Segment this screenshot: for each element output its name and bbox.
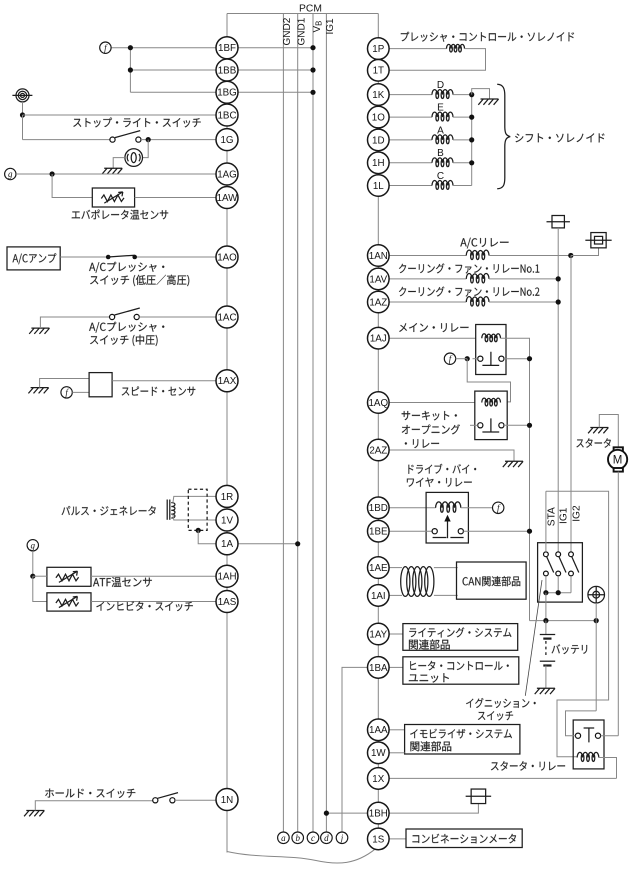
label immobilizer line2 bbox=[410, 741, 451, 751]
svg-text:IG1: IG1 bbox=[559, 507, 570, 524]
cooling fan relay no1 coil bbox=[466, 274, 489, 279]
main relay contact left bbox=[478, 356, 483, 361]
ground starter bbox=[588, 428, 608, 434]
svg-text:d: d bbox=[324, 833, 329, 843]
wire 1BB left bbox=[130, 69, 227, 71]
svg-text:1AN: 1AN bbox=[369, 251, 388, 262]
PCM pin 1AY right bbox=[368, 623, 390, 645]
label hold switch bbox=[45, 789, 135, 798]
wire 1BH right to connector bbox=[389, 804, 478, 814]
svg-text:C: C bbox=[437, 171, 444, 182]
A/C pressure switch hi-lo contact right bbox=[132, 255, 137, 260]
svg-text:1AQ: 1AQ bbox=[368, 398, 388, 409]
battery dashed bbox=[545, 641, 547, 656]
hold switch blade bbox=[158, 793, 178, 799]
wire twist to box top bbox=[434, 567, 458, 569]
wire coil to 1T loop bbox=[389, 49, 485, 71]
svg-text:GND2: GND2 bbox=[282, 17, 293, 45]
stop light switch contact right bbox=[136, 137, 141, 142]
svg-text:1AJ: 1AJ bbox=[370, 334, 387, 345]
wire g to 1AG bbox=[16, 173, 227, 175]
wire solenoid A to common bbox=[453, 139, 472, 141]
label pulse generator bbox=[62, 506, 156, 516]
ignition switch pole 3 top contact bbox=[569, 552, 574, 557]
pulse generator shield bbox=[188, 489, 207, 530]
wire DBW coil to f bbox=[461, 507, 493, 509]
wire 1AQ to COR bbox=[389, 402, 475, 404]
pulse generator core bbox=[166, 500, 168, 520]
label DBW relay line1 bbox=[408, 464, 476, 474]
wire amp to switch bbox=[60, 256, 106, 258]
battery cell 2 bbox=[540, 660, 555, 662]
PCM pin 1BH right bbox=[368, 802, 390, 824]
svg-text:1AZ: 1AZ bbox=[369, 297, 387, 308]
ignition switch pole 3 bottom contact bbox=[569, 571, 574, 576]
label heater line1 bbox=[410, 661, 509, 671]
stop lamp bulb bbox=[125, 149, 143, 167]
svg-text:1T: 1T bbox=[373, 66, 384, 77]
junction VB/1BB bbox=[310, 67, 315, 72]
svg-text:1V: 1V bbox=[221, 515, 233, 526]
wire pulse gen to 1R bbox=[173, 496, 216, 503]
wire solenoid C to common bbox=[453, 185, 472, 187]
svg-text:1BH: 1BH bbox=[369, 809, 388, 820]
node g ATF bbox=[27, 540, 38, 551]
wire 1BE to DBW switch bbox=[389, 530, 432, 532]
wire bullseye down bbox=[22, 102, 24, 115]
label cooling fan relay no1 bbox=[399, 263, 539, 273]
wire main relay contact right out bbox=[504, 358, 530, 360]
label main relay bbox=[399, 323, 468, 332]
wire mid switch to 1AC bbox=[139, 316, 227, 318]
wire 1AA to box bbox=[389, 729, 405, 731]
ignition switch pole 2 top contact bbox=[556, 552, 561, 557]
connector node b bbox=[292, 832, 304, 844]
starter relay contact right bbox=[595, 733, 600, 738]
wire 1AN to coil bbox=[389, 255, 466, 257]
wire shield to 1A bbox=[198, 530, 216, 543]
wire twist to box bottom bbox=[434, 594, 458, 596]
main relay contact right bbox=[499, 356, 504, 361]
PCM pin 2AZ right bbox=[368, 439, 390, 461]
wire starter ground bbox=[599, 415, 618, 448]
ignition switch pole 2 bottom contact bbox=[556, 571, 561, 576]
junction shield bbox=[196, 528, 201, 533]
starter motor brush bottom bbox=[614, 468, 623, 472]
svg-text:g: g bbox=[8, 169, 13, 179]
svg-text:1S: 1S bbox=[372, 834, 384, 845]
wire relay coil right to 1X bbox=[599, 758, 617, 779]
DBW relay box bbox=[426, 492, 468, 543]
svg-text:E: E bbox=[437, 103, 444, 114]
wire 1AY to box bbox=[389, 633, 403, 635]
PCM pin 1D right bbox=[368, 129, 390, 151]
label ignition switch line1 bbox=[466, 698, 536, 708]
PCM pin 1AN right bbox=[368, 245, 390, 267]
wire lamp to ground bbox=[113, 158, 125, 169]
svg-text:1A: 1A bbox=[221, 539, 233, 550]
wire 2AZ to ground bbox=[389, 450, 514, 461]
A/C mid switch blade bbox=[115, 308, 140, 315]
bus GND1 bbox=[297, 14, 299, 833]
svg-text:1D: 1D bbox=[372, 135, 385, 146]
label lighting line1 bbox=[409, 627, 511, 637]
svg-text:1AO: 1AO bbox=[217, 252, 237, 263]
ignition switch pole 1 blade bbox=[547, 557, 554, 573]
junction ign tie 2 bbox=[556, 590, 561, 595]
DBW under-bars bbox=[433, 537, 464, 539]
shift solenoid common vertical bbox=[471, 95, 473, 186]
wire DBW contact right out bbox=[463, 530, 529, 532]
A/C amp box bbox=[7, 247, 60, 270]
shift solenoid D coil bbox=[432, 90, 453, 95]
bus IG1 bbox=[325, 14, 327, 833]
wire g to ATF box bbox=[33, 575, 47, 577]
PCM pin 1R left bbox=[216, 485, 238, 507]
wire 1BG to VB bbox=[227, 91, 313, 93]
wire coil no2 to IG1 bbox=[489, 301, 558, 303]
immobilizer box bbox=[405, 725, 520, 755]
PCM pin 1BE right bbox=[368, 520, 390, 542]
svg-text:PCM: PCM bbox=[299, 4, 322, 15]
PCM pin 1AQ right bbox=[368, 392, 390, 414]
starter relay contact left bbox=[575, 733, 580, 738]
junction VB/1BF bbox=[310, 45, 315, 50]
label evaporator temp sensor bbox=[72, 210, 168, 220]
wire hold switch to 1N bbox=[175, 799, 216, 801]
PCM pin 1K right bbox=[368, 84, 390, 106]
svg-text:A: A bbox=[437, 125, 444, 136]
svg-text:1BD: 1BD bbox=[369, 503, 388, 514]
main relay plunger bbox=[482, 352, 499, 366]
label CAN parts bbox=[463, 576, 521, 586]
hold switch contact left bbox=[153, 798, 158, 803]
PCM pin 1AJ right bbox=[368, 327, 390, 349]
wire 1BA to j line bbox=[342, 667, 368, 832]
PCM pin 1N left bbox=[216, 789, 238, 811]
ground shift solenoids bbox=[478, 99, 498, 105]
svg-text:1BC: 1BC bbox=[217, 110, 236, 121]
PCM pin 1AW left bbox=[216, 187, 238, 209]
junction solenoid common O bbox=[469, 115, 474, 120]
CAN box bbox=[457, 562, 527, 599]
label starter bbox=[576, 438, 610, 448]
wire switch to 1G bbox=[141, 139, 227, 141]
DBW relay coil bbox=[436, 502, 461, 508]
ignition switch pole 1 bottom contact bbox=[544, 571, 549, 576]
ground speed sensor bbox=[28, 388, 48, 394]
lighting system box bbox=[403, 624, 518, 651]
node f speed sensor bbox=[61, 387, 72, 398]
wire switch to 1AO bbox=[137, 256, 227, 258]
wire coil no1 to IG1 bbox=[489, 278, 558, 280]
wire to stop lamp bbox=[143, 140, 149, 158]
wire 1P to coil bbox=[389, 48, 446, 50]
junction f main relay bbox=[465, 356, 470, 361]
junction battery rail right bbox=[594, 618, 599, 623]
svg-text:1K: 1K bbox=[372, 90, 384, 101]
wire f node to COR coil bbox=[467, 359, 510, 402]
pulse generator coil bbox=[171, 503, 175, 518]
wire battery positive down bbox=[595, 603, 597, 621]
wire 1A to GND1 bbox=[227, 543, 298, 545]
wire 1BF to VB bbox=[227, 47, 313, 49]
label starter relay bbox=[491, 761, 565, 771]
COR contact left stub bbox=[470, 424, 478, 426]
svg-text:GND1: GND1 bbox=[297, 17, 308, 45]
PCM pin 1T right bbox=[368, 60, 390, 82]
wire 1X bbox=[389, 777, 616, 779]
wire 1S to meter box bbox=[389, 838, 406, 840]
junction IG1/1BH bbox=[324, 811, 329, 816]
wire 1BH left to IG1 bbox=[326, 812, 367, 814]
wire battery to relay contact bbox=[566, 711, 597, 736]
connector IG1 feed bbox=[552, 216, 564, 228]
svg-text:1L: 1L bbox=[373, 181, 384, 192]
PCM pin 1AX left bbox=[216, 370, 238, 392]
svg-text:IG1: IG1 bbox=[325, 18, 336, 35]
PCM pin 1BA right bbox=[368, 657, 390, 679]
svg-text:1R: 1R bbox=[221, 492, 234, 503]
label A/C relay bbox=[460, 238, 508, 249]
wire 1K to solenoid D bbox=[389, 94, 432, 96]
PCM pin 1G left bbox=[216, 129, 238, 151]
wire ign common down bbox=[545, 593, 547, 621]
wire battery to ground bbox=[545, 666, 547, 689]
junction f/1BF bbox=[128, 45, 133, 50]
node f top-left bbox=[100, 42, 111, 53]
wire 1AV to coil bbox=[389, 278, 466, 280]
connector node d bbox=[321, 832, 333, 844]
PCM pin 1L right bbox=[368, 175, 390, 197]
inhibitor switch bbox=[47, 593, 91, 611]
label inhibitor switch bbox=[96, 601, 192, 611]
hold switch contact right bbox=[170, 798, 175, 803]
ignition switch pole 1 bottom drop bbox=[545, 576, 547, 593]
PCM pin 1AA right bbox=[368, 719, 390, 741]
PCM pin 1AZ right bbox=[368, 291, 390, 313]
PCM pin 1W right bbox=[368, 742, 390, 764]
main relay coil bbox=[482, 334, 501, 338]
svg-text:2AZ: 2AZ bbox=[369, 445, 387, 456]
shift solenoid C coil bbox=[432, 181, 453, 186]
DBW plunger arrow bbox=[447, 522, 449, 539]
continuation wave bbox=[227, 849, 376, 863]
label A/C amp bbox=[13, 253, 57, 264]
PCM pin 1AC left bbox=[216, 306, 238, 328]
main relay box bbox=[476, 325, 506, 375]
battery cell 1 bbox=[540, 634, 555, 636]
junction f/1BB bbox=[128, 67, 133, 72]
label A/C mid switch line2 bbox=[90, 335, 157, 346]
connector node j bbox=[336, 832, 348, 844]
junction GND1/1A bbox=[295, 541, 300, 546]
starter motor body bbox=[608, 450, 627, 469]
ignition switch box bbox=[538, 543, 583, 602]
ignition switch pole 3 blade bbox=[572, 557, 579, 573]
connector node a bbox=[278, 832, 290, 844]
label lighting line2 bbox=[409, 639, 450, 649]
svg-text:1AC: 1AC bbox=[217, 312, 236, 323]
evaporator temp sensor bbox=[92, 188, 134, 207]
svg-text:1N: 1N bbox=[221, 795, 234, 806]
A/C relay coil bbox=[466, 250, 489, 255]
wire rail to battery bbox=[545, 621, 547, 635]
svg-text:IG2: IG2 bbox=[571, 505, 582, 522]
svg-text:1G: 1G bbox=[220, 135, 233, 146]
svg-text:B: B bbox=[437, 148, 444, 159]
PCM pin 1BG left bbox=[216, 81, 238, 103]
svg-text:1P: 1P bbox=[372, 44, 384, 55]
ignition switch pole 3 bottom drop bbox=[570, 576, 572, 593]
label immobilizer line1 bbox=[410, 729, 512, 739]
wire relay contact to motor bbox=[601, 735, 619, 737]
wire ATF to 1AH bbox=[91, 575, 227, 577]
A/C mid switch contact left bbox=[110, 314, 115, 319]
shift solenoid brace bbox=[497, 84, 510, 189]
svg-text:j: j bbox=[340, 833, 344, 843]
PCM pin 1BF left bbox=[216, 37, 238, 59]
COR contact right bbox=[499, 423, 504, 428]
wire 1W to box bbox=[389, 752, 405, 754]
junction solenoid common H bbox=[469, 160, 474, 165]
wire battery positive to starter relay bbox=[595, 621, 597, 711]
svg-text:STA: STA bbox=[546, 507, 557, 526]
A/C pressure switch hi-lo contact left bbox=[106, 255, 111, 260]
ignition switch leader bbox=[525, 580, 542, 696]
junction ATF branch bbox=[30, 574, 35, 579]
wire f to 1BF bbox=[111, 47, 227, 49]
PCM pin 1X right bbox=[368, 768, 390, 790]
label stop light switch bbox=[73, 118, 200, 128]
PCM pin 1AG left bbox=[216, 163, 238, 185]
COR plunger bbox=[482, 418, 499, 432]
wire inhibitor to 1AS bbox=[91, 601, 227, 603]
ignition switch pole 1 top contact bbox=[544, 552, 549, 557]
junction VB/1BG bbox=[310, 90, 315, 95]
wire 1BD to DBW relay bbox=[389, 507, 436, 509]
wire g branch to inhibitor bbox=[33, 576, 47, 601]
wire ground to mid switch bbox=[40, 317, 109, 328]
label circuit opening relay line1 bbox=[402, 411, 457, 421]
ground 2AZ bbox=[503, 461, 523, 467]
junction 529/main contact bbox=[527, 356, 532, 361]
wire STA jog bbox=[546, 491, 609, 757]
battery feed symbol bbox=[16, 89, 29, 102]
svg-text:1BG: 1BG bbox=[217, 88, 237, 99]
label ATF temp sensor bbox=[93, 577, 152, 587]
PCM pin 1V left bbox=[216, 509, 238, 531]
svg-text:1AY: 1AY bbox=[369, 629, 387, 640]
label pressure control solenoid bbox=[401, 32, 574, 42]
PCM pin 1AE right bbox=[368, 557, 390, 579]
wire 1L1 to solenoid C bbox=[389, 185, 432, 187]
PCM pin 1A left bbox=[216, 533, 238, 555]
shift solenoid A coil bbox=[432, 135, 453, 140]
wire 1AE to twist bbox=[389, 567, 402, 569]
wire 1AZ to coil bbox=[389, 301, 466, 303]
wire 1D to solenoid A bbox=[389, 139, 432, 141]
svg-text:1AI: 1AI bbox=[371, 591, 386, 602]
speed sensor box bbox=[89, 373, 112, 397]
wire 1AJ to main relay bbox=[389, 337, 476, 339]
wire solenoid B to common bbox=[453, 162, 472, 164]
label speed sensor bbox=[122, 386, 196, 395]
wire solenoid common to ground bbox=[472, 89, 490, 99]
circuit opening relay box bbox=[475, 391, 507, 440]
wire COR contact right out bbox=[504, 424, 530, 426]
PCM pin 1AS left bbox=[216, 591, 238, 613]
wire f to sensor bbox=[72, 391, 89, 393]
IG1 feed line bbox=[557, 228, 559, 552]
label A/C pressure switch line1 bbox=[89, 262, 164, 273]
wire main relay contact left out bbox=[473, 358, 478, 360]
wire evap to 1AW bbox=[135, 197, 227, 199]
label heater line2 bbox=[409, 673, 449, 682]
wire 1AI to twist bbox=[389, 594, 402, 596]
ground stop lamp bbox=[102, 168, 122, 174]
connector node c bbox=[307, 832, 319, 844]
wire g branch down bbox=[52, 174, 92, 198]
connector battery feed bbox=[591, 233, 606, 248]
stop light switch blade bbox=[115, 131, 140, 138]
connector 1BH bbox=[471, 789, 486, 804]
svg-text:g: g bbox=[31, 541, 36, 551]
right column bus bbox=[377, 14, 379, 839]
svg-text:VB: VB bbox=[312, 21, 324, 33]
cooling fan relay no2 coil bbox=[466, 297, 489, 302]
svg-text:M: M bbox=[613, 455, 623, 467]
svg-text:1X: 1X bbox=[372, 774, 384, 785]
label circuit opening relay line2 bbox=[402, 424, 460, 434]
svg-text:D: D bbox=[437, 80, 444, 91]
PCM pin 1BB left bbox=[216, 59, 238, 81]
IG2 feed line bbox=[570, 256, 572, 552]
PCM top line bbox=[227, 13, 378, 15]
junction IG1/no2 bbox=[556, 299, 561, 304]
node f main relay bbox=[444, 353, 455, 364]
svg-text:c: c bbox=[311, 833, 315, 843]
combination meter box bbox=[406, 829, 522, 848]
wire 1BC bbox=[23, 114, 228, 116]
COR contact left bbox=[478, 423, 483, 428]
PCM pin 1BD right bbox=[368, 497, 390, 519]
wire main relay coil out bbox=[501, 338, 530, 620]
PCM pin 1O right bbox=[368, 106, 390, 128]
node g left bbox=[5, 168, 16, 179]
junction ign tie 1 bbox=[543, 590, 548, 595]
battery positive symbol bbox=[588, 586, 605, 603]
wire ground to hold switch bbox=[35, 801, 153, 811]
wire junction to connector bbox=[571, 248, 599, 256]
svg-text:1BA: 1BA bbox=[369, 663, 388, 674]
wire 1BG left bbox=[130, 91, 227, 93]
wire g down bbox=[32, 551, 34, 576]
wire 1BB to VB bbox=[227, 69, 313, 71]
svg-text:1W: 1W bbox=[371, 748, 386, 759]
junction solenoid common D bbox=[469, 137, 474, 142]
svg-text:1AA: 1AA bbox=[369, 725, 388, 736]
label shift solenoid bbox=[515, 133, 604, 142]
starter relay box bbox=[573, 720, 604, 769]
ignition switch pole 2 bottom drop bbox=[557, 576, 559, 593]
wire to stop light switch bbox=[23, 139, 110, 141]
wire motor down bbox=[617, 472, 619, 736]
wire pulse gen to 1V bbox=[173, 514, 216, 520]
node f DBW bbox=[493, 502, 504, 513]
A/C mid switch contact right bbox=[134, 314, 139, 319]
PCM pin 1BC left bbox=[216, 104, 238, 126]
